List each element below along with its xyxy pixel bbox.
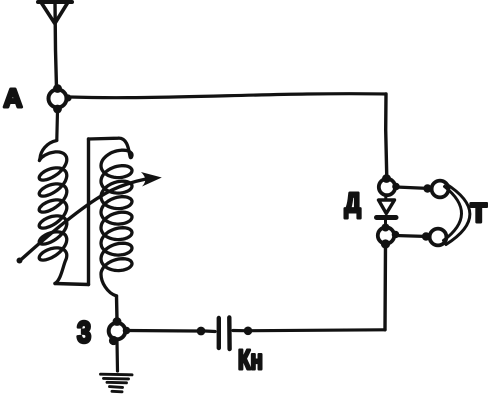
wire right vertical down to diode [386,94,387,178]
junction dot at phone top [423,184,431,192]
wire bottom terminal to phone [396,236,429,237]
svg-text:Т: Т [471,198,488,228]
junction dot left of Kn [197,327,206,336]
phone cord arcs [444,184,470,245]
tuning arrow across coils [17,172,162,264]
wire riser top to coil L2 [89,138,132,158]
antenna [38,2,72,88]
wire node A down to coil [55,111,59,140]
svg-text:Д: Д [345,188,361,219]
coil L1 (left winding) [39,141,67,284]
wire coil bottom link [55,284,89,285]
wire Kn to right riser [233,328,385,332]
node A terminal [49,84,72,113]
svg-text:Кн: Кн [238,345,263,376]
diode bottom terminal [378,224,400,249]
diode D [377,196,397,228]
phone T top jack [432,181,449,198]
svg-text:3: 3 [77,315,91,350]
wire A to top-right corner [70,94,386,98]
wire node Z down to ground [115,341,119,371]
button Kn contact plates [219,318,230,350]
ground symbol [101,374,133,392]
wire coil L2 to node Z [115,296,119,320]
wire coil middle riser [87,139,90,285]
wire dot to plate [205,329,215,333]
diode top terminal [379,174,400,195]
coil L2 (right winding) [101,150,132,296]
node Z terminal [109,317,131,345]
phone T bottom jack [430,229,447,246]
junction dot right of Kn [244,327,253,336]
junction dot at phone bottom [422,232,430,240]
svg-text:А: А [4,83,23,113]
wire node Z to button [127,329,197,333]
wire right riser bottom [383,244,387,330]
wire top terminal to phone [396,187,430,189]
